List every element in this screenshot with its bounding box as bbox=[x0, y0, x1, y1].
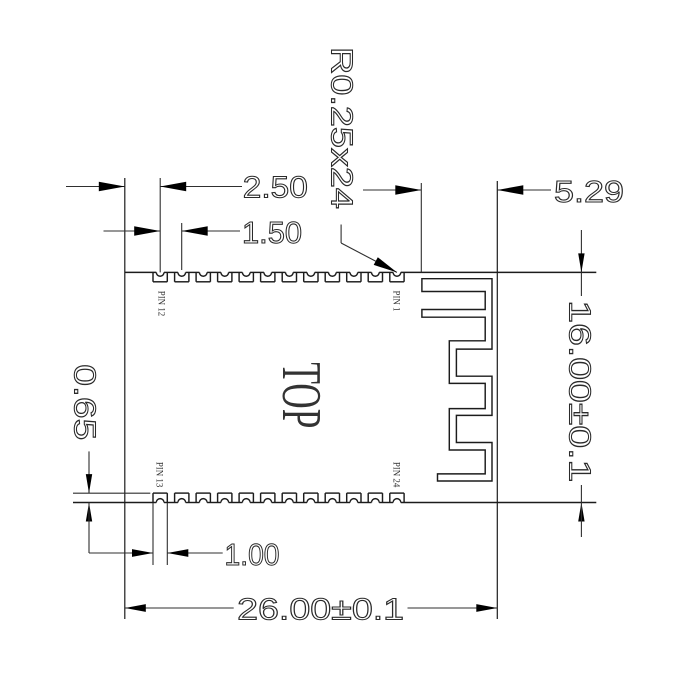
svg-text:26.00±0.1: 26.00±0.1 bbox=[237, 591, 404, 626]
R0.25x24 text (rotated 90deg) bbox=[325, 47, 360, 209]
5.29 dim: left arrow tail bbox=[363, 189, 421, 191]
module bottom edge (with castellation arc gaps), extends left (0.65 ext) and right (16.00 ext) bbox=[73, 502, 596, 504]
PIN 13 label (bottom-left pad) bbox=[155, 462, 165, 488]
5.29 dim: extension line at antenna left edge bbox=[420, 183, 422, 272]
2.50 dim: left arrow line bbox=[66, 186, 125, 188]
2.50 dim text bbox=[243, 169, 308, 204]
0.65 dim: upper arrow shaft bbox=[88, 451, 90, 493]
16.00 dim: upper arrow shaft bbox=[580, 230, 582, 272]
16.00 dim: upper arrowhead (down) bbox=[578, 253, 584, 272]
16.00 dim: lower arrow shaft bbox=[580, 503, 582, 538]
module right edge + extension lines above (5.29 dim) and below (26.00 dim) bbox=[496, 181, 498, 619]
0.65 dim: lower arrow shaft bbox=[88, 503, 90, 554]
26.00 dim: right line bbox=[408, 607, 498, 609]
R0.25x24 leader line (vertical stub + diagonal to pin1 half hole) bbox=[341, 225, 397, 273]
5.29 dim: right arrowhead bbox=[497, 185, 523, 195]
26.00±0.1 dim text bbox=[237, 591, 404, 626]
0.65 dim: lower arrowhead (up) bbox=[86, 503, 92, 522]
1.00 dim: right arrow tail bbox=[167, 552, 222, 554]
top castellated pads PIN12..PIN1 (12 pads, 1.00mm wide, 1.50mm pitch, R0.25 half holes) bbox=[153, 272, 404, 281]
svg-text:1.00: 1.00 bbox=[225, 537, 280, 572]
0.65 dim text (rotated 90deg) bbox=[67, 364, 102, 440]
26.00 dim: left line bbox=[125, 607, 234, 609]
1.00 dim: left arrowhead bbox=[132, 549, 153, 557]
svg-text:PIN 1: PIN 1 bbox=[392, 291, 402, 312]
1.50 dim: extension line at pin11 centre bbox=[181, 223, 183, 270]
1.00 dim: right arrowhead bbox=[167, 549, 188, 557]
1.50 dim: right arrowhead bbox=[182, 226, 208, 236]
16.00 dim: line between text and bottom ext bbox=[580, 485, 582, 503]
2.50 dim: right arrow tail to text bbox=[160, 186, 242, 188]
svg-text:16.00±0.1: 16.00±0.1 bbox=[562, 300, 597, 482]
1.50 dim: right arrow tail bbox=[182, 230, 240, 232]
PIN 1 label (top-right pad) bbox=[392, 291, 402, 312]
5.29 dim text bbox=[554, 174, 624, 209]
svg-text:PIN 24: PIN 24 bbox=[392, 462, 402, 488]
5.29 dim: left arrowhead bbox=[395, 185, 421, 195]
0.65 dim: extension line at bottom pad top edge bbox=[73, 492, 150, 494]
svg-text:R0.25x24: R0.25x24 bbox=[325, 47, 360, 209]
1.50 dim text bbox=[242, 215, 302, 250]
16.00 dim: lower arrowhead (up) bbox=[578, 503, 584, 522]
bottom castellated pads PIN13..PIN24 (12 pads) bbox=[153, 493, 404, 502]
svg-text:0.65: 0.65 bbox=[67, 364, 102, 440]
2.50 dim: extension line at pin12 centre bbox=[159, 178, 161, 272]
svg-text:TOP: TOP bbox=[270, 362, 332, 428]
module top edge (with castellation arc gaps), extends right as extension line for 16.00 dim bbox=[125, 271, 597, 273]
svg-text:PIN 12: PIN 12 bbox=[156, 291, 166, 317]
svg-text:1.50: 1.50 bbox=[242, 215, 302, 250]
0.65 dim: upper arrowhead (down) bbox=[86, 474, 92, 493]
R0.25x24 leader arrowhead bbox=[374, 257, 397, 272]
svg-text:2.50: 2.50 bbox=[243, 169, 308, 204]
1.50 dim: left arrowhead bbox=[134, 226, 160, 236]
26.00 dim: left arrowhead (outward) bbox=[125, 604, 146, 612]
TOP text (rotated 90deg, centre of module) bbox=[270, 362, 332, 428]
1.00 dim: extension lines at pad13 edges bbox=[153, 503, 167, 565]
module left edge + extension lines above (2.50 dim) and below (26.00 dim) bbox=[124, 178, 126, 619]
16.00±0.1 dim text (rotated 90deg) bbox=[562, 300, 597, 482]
2.50 dim: left arrowhead bbox=[99, 182, 125, 192]
1.50 dim: left arrow line bbox=[104, 230, 161, 232]
PIN 12 label (top-left pad) bbox=[156, 291, 166, 317]
2.50 dim: right arrowhead bbox=[160, 182, 186, 192]
1.00 dim: left arrow line bbox=[89, 552, 153, 554]
svg-text:5.29: 5.29 bbox=[554, 174, 624, 209]
1.00 dim text bbox=[225, 537, 280, 572]
5.29 dim: right arrow tail to text bbox=[497, 189, 551, 191]
PCB meander antenna trace outline (right side of module) bbox=[422, 279, 492, 481]
svg-text:PIN 13: PIN 13 bbox=[155, 462, 165, 488]
16.00 dim: line between top ext and text bbox=[580, 272, 582, 296]
PIN 24 label (bottom-right pad) bbox=[392, 462, 402, 488]
26.00 dim: right arrowhead (outward) bbox=[476, 604, 497, 612]
